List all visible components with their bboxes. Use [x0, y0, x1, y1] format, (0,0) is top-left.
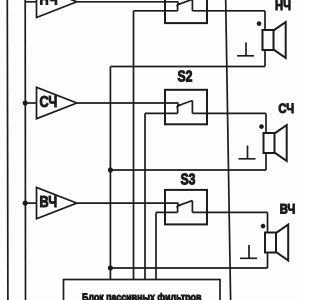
svg-text:ВЧ: ВЧ	[280, 201, 296, 216]
svg-text:НЧ: НЧ	[40, 0, 58, 9]
svg-text:S3: S3	[181, 170, 196, 188]
svg-text:НЧ: НЧ	[275, 0, 291, 13]
svg-text:Блок пассивных фильтров: Блок пассивных фильтров	[82, 292, 201, 300]
svg-text:СЧ: СЧ	[40, 94, 58, 112]
svg-text:S2: S2	[178, 67, 193, 85]
svg-text:СЧ: СЧ	[278, 101, 294, 116]
svg-text:ВЧ: ВЧ	[40, 194, 58, 212]
